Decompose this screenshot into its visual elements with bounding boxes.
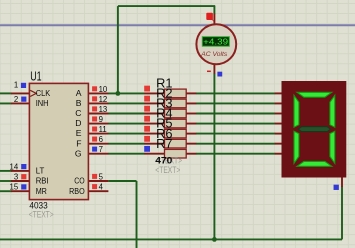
svg-text:CO: CO: [74, 176, 85, 186]
svg-text:14: 14: [10, 162, 19, 171]
svg-text:F: F: [76, 138, 81, 148]
svg-text:13: 13: [99, 105, 108, 114]
svg-text:1: 1: [14, 80, 18, 89]
svg-text:INH: INH: [36, 98, 49, 108]
svg-text:3: 3: [14, 172, 18, 181]
svg-text:5: 5: [99, 173, 104, 182]
svg-text:11: 11: [99, 125, 107, 134]
svg-text:<TEXT>: <TEXT>: [29, 210, 54, 220]
svg-text:9: 9: [99, 115, 103, 124]
svg-text:RBO: RBO: [69, 186, 85, 196]
svg-text:CLK: CLK: [36, 88, 51, 98]
svg-text:12: 12: [99, 95, 108, 104]
svg-text:E: E: [76, 128, 82, 138]
svg-text:C: C: [75, 108, 81, 118]
svg-text:+4.39: +4.39: [203, 37, 228, 47]
svg-text:RBI: RBI: [36, 176, 49, 186]
svg-text:AC Volts: AC Volts: [200, 51, 228, 58]
svg-text:U1: U1: [30, 68, 41, 83]
svg-text:7: 7: [99, 145, 103, 154]
svg-text:R7: R7: [156, 136, 172, 151]
svg-text:470: 470: [155, 154, 172, 165]
svg-text:G: G: [75, 148, 82, 158]
svg-text:6: 6: [99, 135, 103, 144]
svg-text:D: D: [75, 118, 81, 128]
svg-text:<TEXT>: <TEXT>: [155, 165, 180, 175]
svg-text:MR: MR: [36, 186, 47, 196]
svg-text:A: A: [76, 88, 82, 98]
svg-text:4: 4: [99, 183, 104, 192]
svg-text:10: 10: [99, 85, 108, 94]
svg-text:2: 2: [14, 95, 18, 104]
svg-text:B: B: [76, 98, 82, 108]
svg-text:LT: LT: [36, 166, 45, 176]
svg-text:15: 15: [10, 183, 19, 192]
